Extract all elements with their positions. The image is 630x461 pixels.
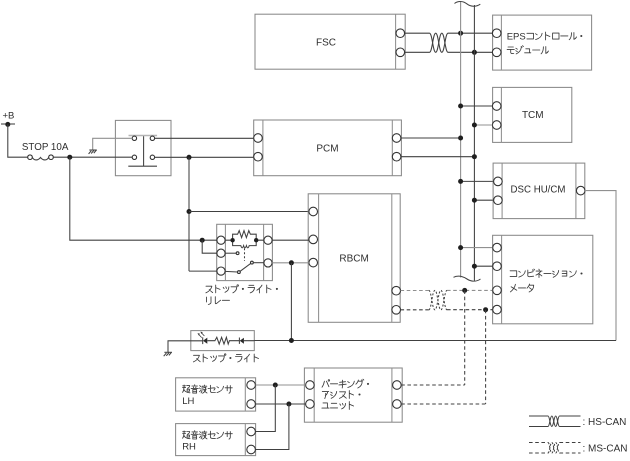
relay pin 1	[132, 136, 136, 140]
TCM pin CAN-L	[492, 121, 501, 130]
stop-light relay pin 4	[264, 236, 272, 244]
ultrasonic RH pin 1	[247, 427, 256, 436]
label 超音波センサ LH	[182, 385, 232, 407]
svg-text:STOP 10A: STOP 10A	[22, 142, 69, 153]
bus continuation wave bottom	[454, 276, 481, 281]
module RBCM box	[308, 194, 400, 322]
RBCM pin MS-CAN-H	[392, 286, 401, 295]
svg-text:DSC HU/CM: DSC HU/CM	[511, 184, 566, 195]
stop-light relay pin 3 common	[217, 267, 225, 275]
relay actuator dashed link	[244, 248, 246, 261]
DSC pin CAN-H	[494, 177, 503, 186]
label パーキング・アシスト・ユニット	[322, 379, 369, 409]
svg-text:FSC: FSC	[316, 37, 336, 48]
junction meter CAN-L	[472, 264, 477, 269]
junction relay output	[187, 155, 192, 160]
junction sensor bus 2	[286, 402, 291, 407]
wire to stop-light relay common	[189, 270, 217, 272]
ground (stop light)	[164, 352, 172, 356]
wire FSC CAN-H	[405, 32, 493, 34]
wire branch to stop-light relay pin2	[202, 240, 217, 253]
junction stop light wire	[289, 338, 294, 343]
RBCM pin 2	[309, 235, 318, 244]
module ultrasonic sensor RH box	[176, 424, 256, 456]
relay (main) box	[115, 120, 171, 175]
label 超音波センサ RH	[182, 431, 232, 453]
wire TCM CAN-L	[474, 124, 492, 126]
svg-text:: HS-CAN: : HS-CAN	[583, 417, 627, 428]
wire DSC brake signal to stop light	[585, 191, 616, 341]
wire ultrasonic LH pin1 to parking assist	[255, 384, 305, 386]
wire PCM CAN-H	[401, 137, 461, 139]
relay switch blade	[225, 261, 264, 273]
svg-text:EPS: EPS	[507, 31, 526, 42]
junction MS-CAN-H	[462, 288, 467, 293]
stop light LED arrows	[198, 332, 205, 338]
relay coil node right	[254, 238, 258, 242]
parking assist pin MS-CAN-H	[393, 381, 402, 390]
TCM pin CAN-H	[492, 102, 501, 111]
junction DSC CAN-L	[472, 198, 477, 203]
parking assist pin left 2	[306, 400, 315, 409]
module FSC box	[255, 14, 405, 69]
HS-CAN bus line CAN-H	[460, 2, 462, 278]
parking assist pin MS-CAN-L	[393, 400, 402, 409]
wire PCM CAN-L	[401, 156, 475, 158]
wire parking assist MS-CAN-H (dashed)	[401, 384, 465, 386]
stop light resistor	[207, 337, 239, 344]
wire to RBCM pin1	[189, 211, 309, 213]
ultrasonic RH pin 2	[247, 445, 256, 454]
wire +B to fuse	[8, 124, 28, 157]
stop-light relay box	[217, 224, 273, 280]
svg-text:: MS-CAN: : MS-CAN	[583, 444, 628, 455]
relay pin 4	[150, 155, 154, 159]
twisted pair MS-CAN (dashed)	[429, 290, 447, 309]
wire DSC CAN-L	[474, 199, 492, 201]
relay pin 2	[150, 136, 154, 140]
wire relay output down	[188, 157, 190, 271]
twisted pair FSC-EPS	[430, 33, 449, 52]
stop-light relay pin 2	[217, 249, 225, 257]
wire combination meter CAN-H	[461, 247, 493, 249]
junction PCM CAN-H	[458, 136, 463, 141]
wire relay to RBCM pin3	[272, 262, 309, 264]
relay coil bar	[129, 135, 158, 137]
wire fuse branch down to stop-light relay coil	[70, 157, 217, 240]
junction meter CAN-H	[458, 245, 463, 250]
wire relay coil to ground	[93, 138, 133, 150]
module ultrasonic sensor LH box	[176, 378, 256, 411]
relay NC contact	[225, 252, 239, 255]
stop light diode 2	[239, 338, 244, 344]
combination meter pin CAN-H	[493, 243, 502, 252]
combination meter pin CAN-L	[493, 262, 502, 271]
label ストップ・ライト	[193, 354, 258, 362]
legend HS-CAN symbol	[529, 416, 626, 428]
junction stop light branch	[289, 260, 294, 265]
parking assist pin left 1	[306, 381, 315, 390]
node +B battery feed	[1, 110, 15, 127]
wire sensor bus 1 drop	[255, 385, 275, 432]
module DSC HU/CM box	[493, 163, 585, 219]
PCM pin left 1	[254, 134, 263, 143]
svg-text:RH: RH	[182, 442, 196, 453]
svg-text:+B: +B	[3, 110, 15, 121]
module parking assist unit box	[304, 368, 402, 422]
RBCM pin 1	[309, 207, 318, 216]
wire fuse to relay	[53, 156, 132, 158]
bus continuation wave top	[455, 2, 481, 7]
stop-light relay pin 1	[217, 236, 225, 244]
module PCM box	[254, 120, 402, 176]
wire combination meter CAN-L	[474, 265, 492, 267]
wire TCM CAN-H	[461, 105, 493, 107]
junction MS-CAN-L	[483, 307, 488, 312]
PCM pin CAN-H	[392, 134, 401, 143]
relay armature	[128, 136, 157, 166]
HS-CAN bus line CAN-L	[473, 5, 475, 281]
EPS pin CAN-H	[492, 29, 501, 38]
junction sensor bus 1	[273, 383, 278, 388]
EPS pin CAN-L	[492, 48, 501, 57]
junction CAN-L at bus	[472, 50, 477, 55]
wire MS-CAN-H drop to parking assist (dashed)	[464, 290, 466, 385]
wire ground to stop light	[168, 341, 203, 353]
wire FSC CAN-L	[405, 51, 493, 53]
relay pin 3	[132, 155, 136, 159]
junction fuse branch	[67, 155, 72, 160]
FSC pin CAN-L	[396, 48, 405, 57]
junction PCM CAN-L	[472, 154, 477, 159]
combination meter pin MS-CAN-H	[493, 286, 502, 295]
wire DSC CAN-H	[461, 180, 493, 182]
fuse STOP 10A	[22, 142, 69, 160]
junction stop-light relay feed	[200, 238, 205, 243]
junction DSC CAN-H	[458, 179, 463, 184]
junction CAN-H at bus	[458, 31, 463, 36]
module EPS control module box	[493, 15, 592, 70]
label EPS コントロール・モジュール	[507, 31, 583, 54]
DSC pin CAN-L	[494, 196, 503, 205]
combination meter pin MS-CAN-L	[493, 305, 502, 314]
svg-text:RBCM: RBCM	[339, 254, 368, 265]
wire relay output down to stop light	[290, 263, 292, 341]
svg-text:TCM: TCM	[522, 110, 544, 121]
svg-text:PCM: PCM	[316, 144, 338, 155]
stop-light relay pin 5	[264, 259, 272, 267]
ultrasonic LH pin 2	[247, 400, 256, 409]
junction TCM CAN-L	[472, 123, 477, 128]
legend MS-CAN symbol	[529, 443, 628, 455]
wire ultrasonic LH pin2 to parking assist	[255, 403, 305, 405]
relay coil resistor branch	[225, 231, 264, 241]
wire relay to PCM IG	[155, 137, 254, 139]
ultrasonic LH pin 1	[247, 381, 256, 390]
wire parking assist MS-CAN-L (dashed)	[401, 403, 485, 405]
module combination meter box	[493, 235, 593, 323]
wire MS-CAN-L drop to parking assist (dashed)	[485, 310, 487, 404]
RBCM pin MS-CAN-L	[392, 306, 401, 315]
wire relay to PCM B+	[155, 156, 254, 158]
relay coil node left	[230, 238, 234, 242]
wire MS-CAN-H RBCM to meter (dashed)	[401, 289, 493, 291]
svg-text:LH: LH	[182, 396, 194, 407]
junction RBCM feed	[187, 209, 192, 214]
PCM pin left 2	[254, 152, 263, 161]
wire MS-CAN-L RBCM to meter (dashed)	[401, 309, 493, 311]
label ストップ・ライト・リレー	[206, 285, 278, 305]
wire sensor bus 2 drop	[255, 404, 289, 450]
DSC pin brake signal	[576, 186, 585, 195]
module TCM box	[493, 87, 572, 142]
junction TCM CAN-H	[458, 104, 463, 109]
FSC pin CAN-H	[396, 29, 405, 38]
wire relay to RBCM pin2	[272, 239, 309, 241]
label コンビネーション・メータ	[510, 269, 582, 292]
stop light box	[191, 331, 255, 351]
relay coil inductor branch	[233, 240, 257, 248]
ground (main relay)	[89, 150, 97, 154]
wire stop light to DSC	[244, 340, 616, 342]
PCM pin CAN-L	[392, 152, 401, 161]
RBCM pin 3	[309, 258, 318, 267]
stop light diode 1	[203, 337, 208, 344]
